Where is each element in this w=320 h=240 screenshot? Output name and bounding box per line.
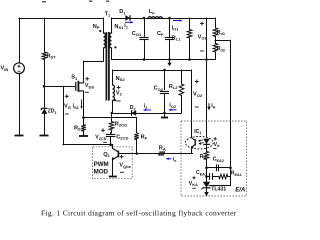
wire CO1 top lead	[144, 18, 146, 36]
node NS2 bottom junction	[111, 112, 114, 115]
node CO1 bottom	[143, 58, 146, 61]
wire VO2 down to opto collector	[191, 70, 193, 138]
wire CO1 bottom lead	[144, 40, 146, 60]
wire RST top	[44, 18, 46, 52]
svg-text:TL431: TL431	[211, 186, 226, 192]
wire source to RF top	[84, 117, 137, 119]
wire gate drive horizontal	[44, 86, 76, 88]
wire NS2 top lead	[112, 70, 114, 85]
wire NS2 top to VO2 node	[113, 70, 192, 72]
wire RL1 bottom lead	[189, 38, 191, 60]
capacitor CO1	[139, 38, 148, 40]
wire CEA1 left lead	[207, 176, 210, 178]
capacitor CO2	[160, 92, 169, 94]
wire RF bottom lead	[136, 140, 138, 154]
svg-text:E/A: E/A	[235, 188, 245, 194]
resistor RZCD	[109, 122, 114, 131]
wire CO2 bottom lead	[164, 94, 166, 118]
node RF-base junction	[135, 152, 138, 155]
svg-text:RF: RF	[141, 134, 148, 140]
polarity dot NS2	[114, 99, 116, 101]
wire RL2 top lead	[181, 70, 183, 84]
node RL1 bottom	[188, 58, 191, 61]
wire CEA1 to REA1	[213, 176, 219, 178]
node gate drive junction	[43, 85, 46, 88]
wire aux rail with D2	[112, 113, 181, 115]
svg-text:RL1: RL1	[172, 35, 181, 41]
arrow i2	[144, 109, 152, 112]
svg-text:D1: D1	[119, 9, 126, 15]
wire RB to TL431	[206, 160, 208, 182]
ground aux	[161, 117, 168, 119]
minus VQbe	[120, 171, 124, 173]
ground RS	[79, 135, 88, 137]
svg-text:Fig. 1 Circuit diagram of sel: Fig. 1 Circuit diagram of self-oscillati…	[41, 209, 237, 218]
polarity dot NS1	[114, 46, 116, 48]
wire drain to primary bottom	[84, 61, 104, 63]
svg-text:D2: D2	[130, 105, 136, 111]
wire VIN bottom lead	[19, 73, 21, 135]
resistor Rd2	[213, 44, 218, 53]
wire Q1 emitter down	[112, 159, 114, 176]
node CO2 top	[163, 69, 166, 72]
svg-text:ZD1: ZD1	[48, 109, 57, 115]
wire CEA2 branch	[207, 167, 231, 169]
wire drain up	[83, 61, 85, 83]
shunt regulator TL431	[203, 182, 210, 188]
svg-text:MOD: MOD	[94, 168, 109, 175]
wire divider middle	[215, 37, 217, 44]
wire RZCD top lead	[111, 113, 113, 122]
plus VO2	[195, 80, 199, 84]
source VIN	[14, 63, 25, 74]
node comp bottom branch	[205, 175, 208, 178]
svg-text:CO2: CO2	[154, 86, 164, 92]
capacitor CZCD	[106, 135, 116, 137]
svg-text:VZCD: VZCD	[95, 135, 106, 141]
svg-text:S1: S1	[71, 75, 78, 81]
wire LED to RB	[206, 144, 208, 151]
arrow i1	[125, 21, 133, 24]
svg-text:iS1: iS1	[73, 104, 80, 110]
box E/A	[181, 121, 247, 196]
svg-text:CF: CF	[157, 31, 164, 37]
svg-text:IC1: IC1	[194, 129, 201, 135]
ground ZD1	[40, 135, 49, 137]
wire NS1 bottom lead	[111, 48, 113, 60]
wire tap down to E/A	[230, 40, 232, 168]
plus VKA	[192, 176, 195, 179]
plus V2	[117, 86, 121, 90]
svg-text:T1: T1	[105, 11, 111, 17]
svg-text:LF: LF	[149, 9, 155, 15]
svg-text:Rd1: Rd1	[217, 30, 225, 36]
svg-text:Rd2: Rd2	[217, 46, 225, 52]
svg-text:VQbe: VQbe	[119, 163, 131, 169]
wire divider tap	[215, 40, 231, 42]
plus VO1	[200, 22, 204, 26]
wire CZCD bottom lead	[110, 137, 112, 145]
svg-text:VDS: VDS	[85, 83, 95, 89]
capacitor CEA2	[217, 164, 219, 171]
svg-text:VKA: VKA	[189, 181, 198, 187]
svg-text:CO1: CO1	[132, 31, 142, 37]
wire RF top lead	[136, 118, 138, 133]
svg-text:ie: ie	[173, 157, 178, 163]
wire CO2 top lead	[164, 70, 166, 90]
svg-text:PWM: PWM	[94, 161, 109, 168]
node CO2 bottom on aux rail	[163, 112, 166, 115]
resistor RF	[134, 133, 139, 140]
plus VZCD	[101, 128, 105, 132]
light arrows IC1	[198, 140, 204, 146]
wire tap to TL431 ref	[230, 168, 232, 185]
node tap-comp junction	[229, 167, 232, 170]
ground secondary (arrow style)	[167, 60, 171, 67]
arrow iK	[207, 103, 211, 110]
wire TL431 ref	[209, 185, 231, 187]
wire RST bottom to ZD1	[44, 60, 46, 108]
wire primary top lead	[103, 18, 105, 33]
arrow iS1 downward	[80, 100, 82, 109]
wire NS1 top lead	[111, 18, 113, 33]
resistor RS	[81, 125, 86, 131]
inductor LF	[148, 17, 163, 19]
svg-text:NS2: NS2	[116, 76, 126, 82]
node source junction	[82, 116, 85, 119]
ground VIN	[15, 135, 24, 137]
svg-text:V2: V2	[116, 90, 123, 96]
svg-text:i2: i2	[144, 104, 148, 110]
minus VO2	[195, 106, 199, 108]
minus VG	[65, 113, 69, 115]
wire RZCD to CZCD	[111, 130, 113, 133]
svg-text:RST: RST	[47, 53, 57, 59]
wire NS2 bottom lead	[112, 101, 114, 114]
arrow iO2	[169, 109, 177, 112]
node CO1 top	[143, 17, 146, 20]
wire secondary bottom rail	[112, 59, 215, 61]
svg-text:NS1: NS1	[114, 24, 124, 30]
wire RA to opto emitter	[165, 153, 193, 155]
svg-text:REA1: REA1	[231, 171, 242, 177]
wire ZD1 bottom	[44, 114, 46, 135]
wire czcd stub	[110, 132, 112, 134]
wire Q1 base to RA	[118, 153, 158, 155]
svg-text:VO1: VO1	[198, 34, 208, 40]
arrow IO1	[173, 19, 182, 22]
minus VDS	[85, 91, 89, 93]
optocoupler IC1	[185, 136, 213, 149]
ground TL431 (arrow style)	[204, 192, 208, 197]
minus VO1	[200, 50, 204, 52]
core T1	[106, 32, 109, 101]
plus Vd	[214, 137, 217, 140]
resistor Rd1	[213, 28, 218, 37]
capacitor CF	[165, 38, 174, 40]
resistor RST	[42, 52, 47, 60]
arrow ie	[166, 157, 171, 160]
wire RL1 top lead	[189, 18, 191, 30]
svg-text:RS: RS	[74, 125, 81, 131]
node CF bottom	[168, 58, 171, 61]
resistor RL1	[187, 30, 192, 39]
wire iK down to opto LED	[206, 60, 208, 139]
svg-text:VG: VG	[64, 104, 71, 110]
svg-text:CZCD: CZCD	[116, 134, 128, 140]
minus V2	[117, 100, 121, 102]
svg-text:RB: RB	[200, 154, 207, 160]
svg-text:VO2: VO2	[193, 92, 203, 98]
wire Rd2 bottom lead	[215, 52, 217, 60]
resistor RL2	[179, 84, 184, 96]
svg-text:RZCD: RZCD	[115, 121, 127, 127]
resistor RB	[204, 152, 209, 160]
wire Q1 collector vertical	[112, 145, 114, 149]
wire VO1 port right / iK feed	[206, 18, 208, 60]
diode D2	[132, 110, 137, 116]
wire Rd1 top lead	[215, 18, 217, 28]
svg-text:RA: RA	[159, 145, 166, 151]
inductor T1 secondary winding NS1	[110, 33, 112, 48]
plus VG	[65, 94, 69, 98]
zener diode ZD1	[41, 108, 47, 114]
wire primary winding bottom lead	[103, 48, 105, 61]
minus VKA	[192, 187, 195, 189]
box PWM MOD	[93, 147, 133, 179]
wire VIN top lead	[19, 18, 21, 63]
wire CF top lead	[169, 18, 171, 36]
resistor REA1	[219, 174, 228, 179]
plus VDS	[85, 77, 89, 81]
svg-text:Q1: Q1	[103, 152, 110, 158]
polarity dot NP	[99, 30, 101, 32]
MOSFET S1	[76, 81, 84, 92]
minus VZCD	[103, 141, 107, 143]
svg-text:RL2: RL2	[169, 84, 178, 90]
node CF top	[168, 17, 171, 20]
node iK rail junction	[205, 58, 208, 61]
wire TL431 anode down	[206, 188, 208, 192]
svg-text:CEA2: CEA2	[213, 157, 224, 163]
inductor T1 auxiliary winding NS2	[113, 85, 115, 101]
svg-text:NP: NP	[93, 24, 100, 30]
diode D1	[125, 15, 130, 21]
svg-text:Vd: Vd	[214, 142, 220, 148]
node comp top branch	[205, 167, 208, 170]
svg-text:i1: i1	[124, 23, 129, 29]
wire VG sense vertical	[63, 86, 65, 144]
wire CF bottom lead	[169, 40, 171, 60]
phototransistor IC1	[192, 138, 196, 147]
node CZCD-collector junction	[109, 143, 112, 146]
wire opto emitter down to RA wire	[191, 147, 193, 154]
svg-text:iO2: iO2	[169, 103, 176, 109]
transistor Q1	[113, 149, 119, 160]
wire RL2 bottom lead	[181, 96, 183, 114]
minus Vd	[213, 147, 216, 149]
wire RS bottom	[83, 131, 85, 136]
svg-text:VIN: VIN	[1, 66, 9, 72]
svg-text:IO1: IO1	[172, 25, 180, 31]
svg-text:iK: iK	[211, 103, 216, 109]
capacitor CEA1	[210, 173, 213, 180]
LED IC1	[203, 139, 209, 145]
plus VQbe	[120, 155, 124, 159]
wire gate node to Q1 collector	[63, 144, 113, 146]
decorative crop marks	[42, 1, 46, 2]
ground Q1 emitter	[109, 176, 117, 178]
wire source down	[83, 91, 85, 125]
resistor RA	[159, 151, 165, 156]
wire REA1 right lead	[228, 176, 231, 178]
wire secondary top rail	[112, 18, 215, 20]
inductor T1 primary winding NP	[104, 33, 106, 48]
wire top rail primary (VIN+ to T1 primary)	[19, 18, 103, 20]
svg-text:CEA1: CEA1	[196, 170, 207, 176]
wire jog to CZCD	[111, 130, 112, 133]
